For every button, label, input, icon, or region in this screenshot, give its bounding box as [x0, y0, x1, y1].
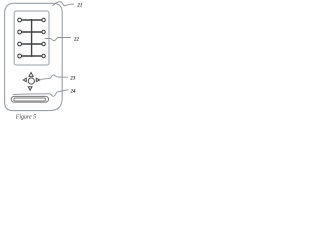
key ladder center bus wire [31, 19, 33, 57]
key row 1 right key [42, 18, 45, 21]
nav right arrow [36, 78, 39, 82]
navigation pad 23 center button [28, 78, 34, 84]
key row 4 left key [18, 54, 22, 58]
key panel 22 outline [14, 11, 49, 65]
key row 1 left key [18, 18, 22, 22]
nav down arrow [28, 87, 32, 91]
svg-text:23: 23 [69, 77, 76, 82]
svg-text:22: 22 [73, 38, 80, 43]
key row 2 left key [18, 30, 22, 34]
svg-text:Figure 5: Figure 5 [15, 114, 36, 120]
key row 3 left key [18, 42, 22, 46]
leader line to 23 [40, 75, 68, 79]
remote control housing 20 [5, 3, 63, 110]
svg-text:24: 24 [70, 90, 77, 95]
key row 1 wire [21, 19, 42, 21]
leader line to 21 [53, 2, 75, 6]
leader line to 22 [45, 38, 72, 41]
key row 2 wire [21, 31, 42, 33]
svg-text:21: 21 [76, 3, 82, 8]
key row 3 right key [42, 42, 45, 45]
leader line to 24 [13, 90, 69, 97]
key row 2 right key [42, 30, 45, 33]
bottom slot 24 inner [14, 98, 46, 101]
bottom slot 24 outer [11, 96, 48, 102]
key row 4 wire [21, 55, 42, 57]
key row 4 right key [42, 54, 45, 57]
key row 3 wire [21, 43, 42, 45]
nav left arrow [23, 78, 26, 82]
nav up arrow [29, 73, 33, 77]
